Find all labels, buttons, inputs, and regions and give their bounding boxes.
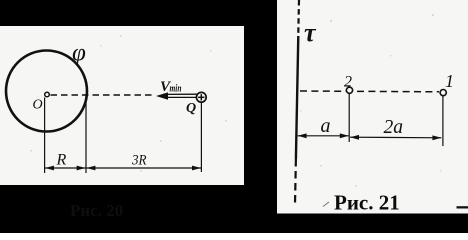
svg-text:3R: 3R [131,153,146,169]
extension line from O [44,98,46,174]
small scratch left of caption [323,202,329,207]
svg-text:O: O [33,98,43,113]
dimension line 2a with arrows [350,135,441,140]
svg-text:Рис. 20: Рис. 20 [70,201,123,220]
charge Q (circle with plus) [196,92,206,102]
dimension line R with arrows [45,166,86,171]
svg-text:Рис. 21: Рис. 21 [334,191,400,215]
point 1 (open dot) [440,90,446,96]
scan black: top bar of left figure [0,0,277,26]
extension line from point 2 [348,94,350,142]
svg-text:R: R [56,152,67,169]
svg-text:min: min [170,84,182,95]
dimension line a with arrows [298,133,349,138]
center point O (small open dot) [45,92,50,97]
svg-text:2a: 2a [384,117,404,138]
v_min arrow (double-line shaft, tip pointing left) [156,92,197,99]
svg-text:a: a [321,115,331,137]
svg-text:2: 2 [344,74,352,91]
short dash at right margin [457,206,468,208]
charged line: dashed top part [297,0,300,33]
extension line from Q [200,103,202,172]
circle (ring of radius R) [6,51,87,132]
dimension line 3R with arrows [86,166,201,171]
paper noise speckles [30,14,442,187]
extension line at circle edge [85,95,87,173]
svg-text:Q: Q [186,101,196,116]
svg-text:1: 1 [445,71,454,91]
svg-text:φ: φ [72,40,86,67]
point 2 (open dot) [346,87,352,93]
charged line: solid middle part [296,36,298,159]
charged line: dashed bottom part [294,159,297,204]
extension line from point 1 [442,96,444,146]
dashed axis line from O to arrow [51,94,155,96]
svg-text:τ: τ [304,18,317,47]
dashed horizontal line to point 1 [300,90,439,93]
scan black: bottom bar of left figure [0,185,277,233]
scan black: bottom strip under right figure [277,214,468,234]
scan black: right column of left figure [244,0,277,233]
